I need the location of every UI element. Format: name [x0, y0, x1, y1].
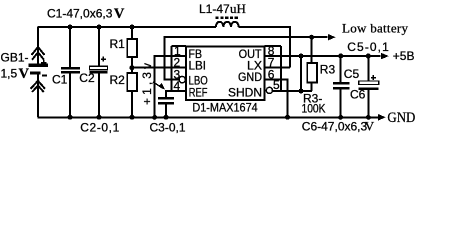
svg-text:1,5: 1,5 [1, 67, 18, 81]
svg-text:V: V [365, 118, 375, 133]
svg-text:C2-0,1: C2-0,1 [80, 121, 119, 135]
svg-text:C3-0,1: C3-0,1 [150, 121, 186, 135]
node: SHDN row junction [299, 89, 304, 94]
capacitor C1 plates [61, 67, 80, 70]
wire R3 top lead (from LBO line) [311, 37, 313, 63]
capacitor C6 polarized top plate (hollow) [359, 81, 379, 85]
wire C3 bottom lead [165, 105, 167, 117]
wire battery bottom lead [37, 74, 39, 117]
wire LBI (pin2 to R1/R2 junction) [132, 67, 187, 69]
node: GND rail C1 [68, 115, 73, 120]
wire OUT rail (pin8 to +5B arrow) [265, 55, 381, 57]
svg-text:R2: R2 [110, 73, 126, 87]
svg-text:5: 5 [273, 78, 280, 92]
node: GND rail pin6 [285, 115, 290, 120]
node: top rail junction R1 [130, 25, 135, 30]
capacitor C3 plates [158, 97, 174, 99]
svg-text:100K: 100K [302, 102, 326, 116]
capacitor C5 leads [340, 56, 342, 82]
svg-text:uH: uH [230, 1, 246, 16]
node: top rail junction C1 [68, 25, 73, 30]
wire top rail left segment (battery+ to inductor) [37, 26, 216, 28]
node: GND rail FB [152, 115, 157, 120]
pin box column left [172, 46, 187, 91]
node: GND rail C2 [97, 115, 102, 120]
wire R3 bottom lead [311, 83, 313, 92]
resistor R2 lead [131, 91, 133, 117]
node: R1/R2 junction [130, 65, 135, 70]
wire REF (pin4 to C3) [166, 91, 186, 97]
inductor L1 core (dashed line) [216, 16, 239, 19]
svg-text:L1-47: L1-47 [199, 2, 230, 16]
svg-text:REF: REF [189, 85, 208, 99]
svg-text:GB1-: GB1- [1, 51, 29, 65]
svg-text:V: V [114, 6, 125, 22]
wire SHDN row (pin5 to R3 bottom) [273, 90, 312, 92]
svg-text:GND: GND [387, 110, 415, 126]
wire GND rail [37, 116, 378, 118]
wire SHDN-OUT link [300, 56, 302, 91]
capacitor C2 bottom plate [90, 71, 108, 74]
capacitor C5 plates [333, 82, 350, 85]
battery GB1 plus sign [41, 60, 46, 65]
resistor R1 leads [131, 27, 133, 39]
capacitor C6 bottom plate [359, 87, 379, 90]
pin 3 inversion bubble (LBO) [179, 76, 185, 82]
node: LBO line to R3 [309, 35, 314, 40]
node: GND rail C6 [366, 115, 371, 120]
battery GB1 minus sign [42, 74, 47, 76]
arrow GND output [378, 114, 386, 121]
capacitor C2 plus sign [101, 57, 106, 62]
svg-text:C1: C1 [52, 72, 68, 86]
wire GND pin6 drop [265, 80, 288, 118]
svg-text:V: V [19, 66, 30, 82]
capacitor C2 vertical leads [98, 27, 100, 66]
svg-text:+5B: +5B [393, 49, 415, 63]
wire LX (pin7 to inductor riser) [265, 67, 290, 69]
wire LBO (pin3 riser and line to Low battery arrow) [165, 37, 328, 79]
capacitor C2 polarized top plate (hollow) [90, 66, 108, 69]
wire FB (pin1 to ground) [155, 56, 186, 117]
svg-text:GND: GND [238, 70, 262, 84]
capacitor C1 vertical leads [69, 27, 71, 67]
IC D1 MAX1674 body [186, 47, 265, 100]
svg-text:R1: R1 [110, 37, 126, 51]
svg-text:LBI: LBI [189, 59, 207, 73]
svg-text:Low battery: Low battery [342, 20, 409, 35]
pin box column right [265, 46, 281, 91]
svg-text:C6: C6 [350, 88, 366, 102]
inductor L1 [216, 22, 239, 27]
svg-text:C1-47,0x6,3: C1-47,0x6,3 [47, 7, 113, 21]
capacitor C6 plus sign [371, 75, 376, 80]
wire battery top lead [37, 27, 39, 64]
battery GB1 negative plate [30, 71, 41, 74]
node: OUT rail to SHDN link [299, 54, 304, 59]
node: GND rail R2 [130, 115, 135, 120]
svg-text:4: 4 [174, 79, 181, 93]
svg-text:R3: R3 [320, 63, 336, 77]
wire top rail right segment (inductor to LX riser) [239, 27, 290, 68]
node: OUT rail C6 [366, 54, 371, 59]
svg-text:C5-0,1: C5-0,1 [347, 40, 389, 54]
node: OUT rail C5 [338, 54, 343, 59]
node: GND rail C3 [164, 115, 169, 120]
pin 5 inversion bubble (SHDN) [266, 87, 272, 93]
node: GND rail C5 [338, 115, 343, 120]
svg-text:SHDN: SHDN [228, 85, 262, 99]
resistor R3 body [307, 63, 317, 83]
battery GB1 positive plate [28, 64, 48, 67]
capacitor C6 leads [367, 56, 369, 81]
contact X1 (upper double chevron) [32, 47, 45, 55]
arrow +1,3v annotation [153, 82, 164, 89]
svg-text:C6-47,0x6,3: C6-47,0x6,3 [302, 119, 368, 133]
svg-text:D1-MAX1674: D1-MAX1674 [192, 101, 258, 115]
resistor R1 body [127, 39, 137, 57]
svg-text:C5: C5 [344, 67, 360, 81]
arrow +5B output [381, 53, 389, 60]
contact X2 (lower double chevron) [31, 81, 46, 89]
svg-text:C2: C2 [79, 71, 95, 85]
resistor R2 body [127, 73, 137, 91]
arrow Low battery [328, 34, 336, 41]
node: top rail junction C2 [97, 25, 102, 30]
svg-text:+1,3v: +1,3v [140, 63, 154, 105]
